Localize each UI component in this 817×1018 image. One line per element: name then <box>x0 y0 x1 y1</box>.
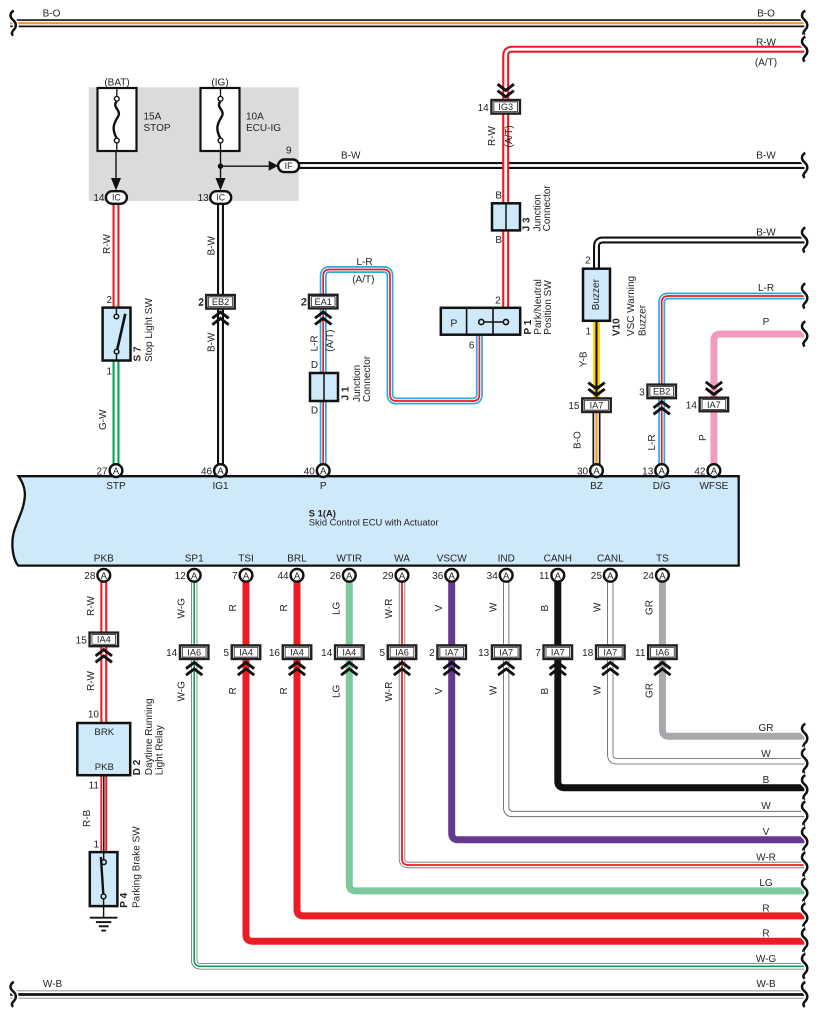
wire R-W (A/T) from right edge down to IG3 and P1 pin 2 <box>506 49 808 308</box>
wire R ECU pin TSI to right edge <box>246 582 808 941</box>
fuse F2 10A ECU-IG <box>201 88 240 151</box>
connector IC pin 14 <box>93 191 127 204</box>
wire fuse STOP to connector IC <box>115 151 117 182</box>
continuation mark B-W buzzer right <box>802 227 807 252</box>
svg-text:IA4: IA4 <box>290 648 304 658</box>
svg-text:IA6: IA6 <box>187 648 201 658</box>
svg-text:13: 13 <box>642 467 654 478</box>
ECU pin TS connector A <box>656 569 669 582</box>
svg-text:(A/T): (A/T) <box>504 125 515 147</box>
svg-text:15: 15 <box>76 635 88 646</box>
wire R-W fuse STOP to stop light switch pin 2 <box>113 204 120 308</box>
connector IA7 pin 13 (IND) <box>478 645 520 659</box>
svg-text:A: A <box>607 571 614 582</box>
svg-text:W: W <box>761 749 771 760</box>
chevron out of IA4 (BRL) <box>289 663 305 676</box>
wire B-O from IA7 to ECU pin BZ <box>593 405 601 464</box>
svg-text:L-R: L-R <box>356 257 372 268</box>
svg-text:D 2: D 2 <box>132 759 143 775</box>
svg-text:WFSE: WFSE <box>699 481 728 492</box>
chevron out of IA4 (PKB) <box>96 650 112 663</box>
chevron out of EB2 (D/G) <box>654 402 670 415</box>
svg-text:IA7: IA7 <box>499 648 513 658</box>
svg-text:D: D <box>311 360 318 371</box>
svg-text:R: R <box>279 604 290 611</box>
svg-text:J 3: J 3 <box>521 217 532 231</box>
ECU pin BRL connector A <box>291 569 304 582</box>
wire L-R from EA1 through J1 to ECU pin P <box>320 308 327 464</box>
svg-text:P 4: P 4 <box>119 892 130 907</box>
wire L-R from EA1 loop to park/neutral switch pin 6 <box>323 270 479 402</box>
svg-text:VSC Warning: VSC Warning <box>626 276 637 336</box>
svg-text:A: A <box>503 571 510 582</box>
svg-text:13: 13 <box>478 648 490 659</box>
svg-text:R: R <box>762 904 769 915</box>
svg-text:R: R <box>762 929 769 940</box>
svg-text:2: 2 <box>429 648 435 659</box>
wire G-W stop light switch pin 1 to ECU pin STP <box>113 361 120 465</box>
svg-text:GR: GR <box>645 600 656 615</box>
svg-text:B: B <box>540 605 551 612</box>
continuation mark B-O left <box>11 11 16 36</box>
svg-text:46: 46 <box>201 467 213 478</box>
svg-text:6: 6 <box>469 341 475 352</box>
wire W-B horizontal (bottom) <box>10 991 807 999</box>
svg-text:5: 5 <box>223 648 229 659</box>
svg-text:VSCW: VSCW <box>437 554 468 565</box>
continuation mark W-G right <box>802 954 807 979</box>
svg-text:GR: GR <box>645 683 656 698</box>
connector IA7 pin 14 (WFSE) <box>686 398 728 412</box>
continuation mark R BRL right <box>802 903 807 928</box>
svg-text:A: A <box>399 571 406 582</box>
svg-text:(A/T): (A/T) <box>325 329 336 351</box>
svg-text:IA7: IA7 <box>707 400 721 410</box>
continuation mark LG right <box>802 878 807 903</box>
arrowhead into IF pin 9 <box>269 161 279 171</box>
svg-text:W: W <box>488 602 499 612</box>
junction connector J1 <box>310 373 338 401</box>
svg-text:A: A <box>320 466 327 477</box>
svg-text:16: 16 <box>269 648 281 659</box>
ECU pin WTIR connector A <box>343 569 356 582</box>
svg-text:7: 7 <box>535 648 541 659</box>
svg-text:ECU-IG: ECU-IG <box>246 123 281 134</box>
svg-text:30: 30 <box>577 467 589 478</box>
svg-text:A: A <box>191 571 198 582</box>
svg-text:29: 29 <box>382 571 394 582</box>
svg-text:7: 7 <box>232 571 238 582</box>
svg-text:A: A <box>555 571 562 582</box>
svg-text:1: 1 <box>93 840 99 851</box>
svg-text:Buzzer: Buzzer <box>637 304 648 336</box>
svg-text:40: 40 <box>304 467 316 478</box>
ECU pin WFSE connector A <box>708 464 721 477</box>
svg-text:EA1: EA1 <box>315 297 332 307</box>
svg-text:G-W: G-W <box>98 409 109 430</box>
svg-text:R-W: R-W <box>102 233 113 254</box>
svg-text:Light Relay: Light Relay <box>154 725 165 775</box>
svg-text:IA6: IA6 <box>395 648 409 658</box>
svg-text:B-W: B-W <box>207 236 218 256</box>
svg-text:14: 14 <box>686 401 698 412</box>
svg-text:LG: LG <box>332 684 343 698</box>
svg-text:SP1: SP1 <box>185 554 204 565</box>
wire B-W fuse ECU-IG to EB2 to ECU pin IG1 <box>217 204 224 464</box>
continuation mark B-W right <box>802 153 807 178</box>
svg-text:TS: TS <box>656 554 669 565</box>
svg-text:11: 11 <box>89 781 100 792</box>
svg-text:28: 28 <box>84 571 96 582</box>
svg-text:14: 14 <box>166 648 178 659</box>
svg-text:LG: LG <box>759 878 773 889</box>
svg-text:V: V <box>763 827 770 838</box>
svg-text:GR: GR <box>759 723 774 734</box>
chevron out of IA4 (WTIR) <box>341 663 357 676</box>
svg-text:W: W <box>488 685 499 695</box>
svg-text:B-W: B-W <box>756 228 776 239</box>
svg-text:V: V <box>434 688 445 695</box>
svg-text:R-W: R-W <box>86 595 97 616</box>
continuation mark V right <box>802 827 807 852</box>
continuation mark W-B left <box>11 982 16 1007</box>
wire V ECU pin VSCW to right edge <box>452 582 808 840</box>
wire Y-B buzzer pin 1 to IA7 <box>593 321 600 405</box>
continuation mark B right <box>802 775 807 800</box>
ECU pin D/G connector A <box>655 464 668 477</box>
svg-text:IG1: IG1 <box>212 481 229 492</box>
svg-text:R-W: R-W <box>756 38 777 49</box>
svg-text:15: 15 <box>568 401 580 412</box>
svg-text:B: B <box>495 235 502 246</box>
svg-text:14: 14 <box>93 193 105 204</box>
connector IA7 pin 18 (CANL) <box>582 645 624 659</box>
svg-text:S 7: S 7 <box>133 346 144 361</box>
svg-text:W-B: W-B <box>43 979 63 990</box>
svg-text:A: A <box>217 466 224 477</box>
svg-text:36: 36 <box>432 571 444 582</box>
svg-text:P: P <box>450 318 457 330</box>
svg-text:IA4: IA4 <box>342 648 356 658</box>
svg-text:STP: STP <box>106 481 126 492</box>
chevron into IA7 (BZ) <box>588 383 604 396</box>
svg-text:W-G: W-G <box>176 598 187 619</box>
wire GR ECU pin TS to right edge <box>662 582 807 737</box>
svg-text:R-B: R-B <box>82 809 93 827</box>
connector IA7 pin 7 (CANH) <box>535 645 572 659</box>
svg-text:B-O: B-O <box>573 431 584 449</box>
svg-text:IA4: IA4 <box>239 648 253 658</box>
connector EA1 pin 2 <box>301 295 338 309</box>
ECU pin BZ connector A <box>590 464 603 477</box>
svg-text:42: 42 <box>694 467 706 478</box>
fuse/relay block background <box>89 87 299 201</box>
svg-text:PKB: PKB <box>95 762 114 773</box>
svg-text:IA7: IA7 <box>603 648 617 658</box>
svg-text:B: B <box>763 775 770 786</box>
chevron out of IA4 (TSI) <box>238 663 254 676</box>
wire fuse ECU-IG down to junction <box>220 151 222 182</box>
svg-text:(A/T): (A/T) <box>755 58 777 69</box>
svg-text:2: 2 <box>585 255 591 266</box>
wire B-W from right edge to buzzer pin 2 <box>597 240 808 269</box>
svg-text:B-W: B-W <box>207 332 218 352</box>
svg-text:W-B: W-B <box>756 979 776 990</box>
svg-text:P: P <box>698 434 709 441</box>
ECU pin SP1 connector A <box>188 569 201 582</box>
svg-text:BRL: BRL <box>287 554 307 565</box>
svg-text:1: 1 <box>106 367 112 378</box>
svg-text:12: 12 <box>175 571 187 582</box>
svg-text:V: V <box>434 605 445 612</box>
wire LG ECU pin WTIR to right edge <box>349 582 807 891</box>
continuation mark GR right <box>802 724 807 749</box>
svg-text:A: A <box>101 571 108 582</box>
chevron out of EA1 <box>315 312 331 325</box>
svg-text:IC: IC <box>112 193 121 203</box>
svg-text:B-W: B-W <box>756 151 776 162</box>
svg-text:IG3: IG3 <box>498 102 513 112</box>
svg-text:A: A <box>659 571 666 582</box>
svg-text:2: 2 <box>198 297 204 308</box>
junction connector J3 <box>492 203 520 230</box>
connector IG3 pin 14 <box>478 100 520 114</box>
svg-text:IC: IC <box>216 193 225 203</box>
svg-text:IND: IND <box>498 554 515 565</box>
svg-text:WTIR: WTIR <box>337 554 363 565</box>
svg-text:P: P <box>763 317 770 328</box>
svg-text:2: 2 <box>106 295 112 306</box>
parking brake switch P4 <box>90 852 118 906</box>
svg-text:D/G: D/G <box>653 481 671 492</box>
continuation mark W CANL right <box>802 749 807 774</box>
svg-text:R-W: R-W <box>487 125 498 146</box>
svg-text:WA: WA <box>394 554 410 565</box>
svg-text:10A: 10A <box>246 112 264 123</box>
svg-text:IA6: IA6 <box>656 648 670 658</box>
svg-text:11: 11 <box>635 648 646 659</box>
wire L-R from right edge down to EB2 and ECU pin D/G <box>662 296 808 464</box>
connector IA6 pin 5 (WA) <box>379 645 416 659</box>
wire B-W from IF connector to right edge <box>299 162 808 169</box>
svg-text:Y-B: Y-B <box>579 351 590 367</box>
svg-text:13: 13 <box>198 193 210 204</box>
wire W ECU pin IND to right edge <box>506 582 807 814</box>
svg-text:5: 5 <box>379 648 385 659</box>
ECU pin VSCW connector A <box>445 569 458 582</box>
svg-text:A: A <box>113 466 120 477</box>
chevron out of IA7 (VSCW) <box>444 663 460 676</box>
svg-text:B: B <box>540 688 551 695</box>
arrowhead into IC pin 13 <box>216 178 226 191</box>
svg-text:Skid Control ECU with Actuator: Skid Control ECU with Actuator <box>309 517 439 528</box>
connector EB2 pin 2 (IG1) <box>198 295 235 309</box>
svg-text:V10: V10 <box>612 318 623 336</box>
svg-text:26: 26 <box>330 571 342 582</box>
svg-text:18: 18 <box>582 648 594 659</box>
svg-text:TSI: TSI <box>238 554 254 565</box>
wire W-G ECU pin SP1 to right edge <box>194 582 807 967</box>
ECU pin CANL connector A <box>604 569 617 582</box>
continuation mark P right <box>802 321 807 346</box>
svg-text:W-R: W-R <box>756 853 776 864</box>
svg-text:EB2: EB2 <box>212 297 229 307</box>
connector IA4 pin 5 (TSI) <box>223 645 260 659</box>
wire R ECU pin BRL to right edge <box>297 582 808 916</box>
svg-text:J 1: J 1 <box>340 386 351 400</box>
connector EB2 pin 3 (D/G) <box>639 385 676 399</box>
svg-text:2: 2 <box>301 297 307 308</box>
chevron out of IA6 (SP1) <box>186 663 202 676</box>
svg-text:A: A <box>346 571 353 582</box>
svg-text:3: 3 <box>639 387 645 398</box>
svg-text:BZ: BZ <box>590 481 603 492</box>
junction dot at fuse ECU-IG branch <box>218 164 223 169</box>
ECU pin STP connector A <box>110 464 123 477</box>
svg-text:Position SW: Position SW <box>543 280 554 335</box>
connector IA7 pin 15 (BZ) <box>568 398 610 412</box>
svg-text:A: A <box>449 571 456 582</box>
connector IA6 pin 11 (TS) <box>635 645 677 659</box>
svg-text:B-O: B-O <box>43 9 61 20</box>
svg-text:Parking Brake SW: Parking Brake SW <box>132 826 143 908</box>
svg-text:A: A <box>243 571 250 582</box>
svg-text:PKB: PKB <box>94 554 114 565</box>
svg-text:A: A <box>294 571 301 582</box>
svg-text:34: 34 <box>487 571 499 582</box>
wire junction to IF connector <box>221 165 270 167</box>
svg-text:24: 24 <box>643 571 655 582</box>
arrowhead into IC pin 14 <box>111 178 121 191</box>
wire B-O main horizontal (top) <box>10 19 807 27</box>
svg-text:IA7: IA7 <box>445 648 459 658</box>
fuse F1 15A STOP <box>98 88 137 151</box>
svg-text:L-R: L-R <box>758 283 774 294</box>
svg-text:IA7: IA7 <box>551 648 565 658</box>
connector IC pin 13 <box>198 191 232 204</box>
connector IA6 pin 14 (SP1) <box>166 645 208 659</box>
ECU pin IG1 connector A <box>214 464 227 477</box>
svg-text:W: W <box>761 801 771 812</box>
wire R-B relay pin 11 to parking brake switch pin 1 <box>100 775 107 852</box>
svg-text:W: W <box>593 602 604 612</box>
wire W-R ECU pin WA to right edge <box>402 582 808 865</box>
stop light switch S7 <box>103 308 131 361</box>
chevron out of IA7 (CANL) <box>602 663 618 676</box>
svg-text:BRK: BRK <box>94 727 114 738</box>
chevron into IG3 <box>498 84 514 97</box>
svg-text:R: R <box>279 687 290 694</box>
ECU pin WA connector A <box>396 569 409 582</box>
chevron out of IA6 (WA) <box>394 663 410 676</box>
svg-text:25: 25 <box>591 571 603 582</box>
connector IA4 pin 14 (WTIR) <box>321 645 363 659</box>
svg-text:W-R: W-R <box>384 682 395 702</box>
svg-text:W-G: W-G <box>176 681 187 702</box>
svg-text:STOP: STOP <box>144 123 171 134</box>
svg-text:2: 2 <box>495 296 501 307</box>
svg-text:P: P <box>320 481 327 492</box>
continuation mark R TSI right <box>802 929 807 954</box>
svg-text:Stop Light SW: Stop Light SW <box>144 298 155 362</box>
connector IA4 pin 15 (PKB) <box>76 633 118 647</box>
ECU pin PKB connector A <box>97 569 110 582</box>
park/neutral position switch P1 <box>441 308 520 335</box>
ground symbol <box>90 906 118 931</box>
svg-text:LG: LG <box>332 601 343 615</box>
chevron out of IA7 (IND) <box>498 663 514 676</box>
chevron out of IA7 (CANH) <box>550 663 566 676</box>
chevron out of EB2 (IG1) <box>212 312 228 325</box>
svg-text:R-W: R-W <box>86 670 97 691</box>
svg-text:A: A <box>659 466 666 477</box>
svg-text:R: R <box>228 687 239 694</box>
svg-text:EB2: EB2 <box>653 387 670 397</box>
svg-text:CANL: CANL <box>597 554 624 565</box>
svg-text:11: 11 <box>539 571 550 582</box>
buzzer V10 <box>583 269 610 321</box>
svg-text:W-R: W-R <box>384 599 395 619</box>
svg-text:CANH: CANH <box>544 554 572 565</box>
chevron into IA7 (WFSE) <box>706 382 722 395</box>
continuation mark R-W right <box>802 37 807 62</box>
continuation mark W-B right <box>802 982 807 1007</box>
svg-text:15A: 15A <box>144 112 162 123</box>
svg-text:IA4: IA4 <box>97 635 111 645</box>
svg-text:W: W <box>593 685 604 695</box>
svg-text:Buzzer: Buzzer <box>591 278 602 310</box>
connector IA7 pin 2 (VSCW) <box>429 645 466 659</box>
svg-text:L-R: L-R <box>309 335 320 351</box>
svg-text:14: 14 <box>478 103 490 114</box>
svg-text:Connector: Connector <box>362 355 373 402</box>
svg-text:27: 27 <box>96 467 108 478</box>
svg-text:IA7: IA7 <box>590 401 604 411</box>
svg-text:14: 14 <box>321 648 333 659</box>
continuation mark B-O right <box>802 11 807 36</box>
wire B ECU pin CANH to right edge <box>558 582 808 788</box>
skid control ECU S1(A) box <box>12 476 738 565</box>
svg-text:D: D <box>311 406 318 417</box>
svg-text:(IG): (IG) <box>211 78 228 89</box>
svg-text:Connector: Connector <box>542 185 553 232</box>
svg-text:IF: IF <box>285 161 293 171</box>
ECU pin TSI connector A <box>240 569 253 582</box>
continuation mark L-R right <box>802 283 807 308</box>
svg-text:B-O: B-O <box>757 9 775 20</box>
connector IA4 pin 16 (BRL) <box>269 645 311 659</box>
connector IF pin 9 <box>278 160 299 173</box>
daytime running light relay D2 <box>77 723 130 775</box>
continuation mark W IND right <box>802 801 807 826</box>
svg-text:44: 44 <box>277 571 289 582</box>
svg-text:(A/T): (A/T) <box>352 274 374 285</box>
svg-text:(BAT): (BAT) <box>104 78 129 89</box>
ECU pin CANH connector A <box>551 569 564 582</box>
ECU pin IND connector A <box>500 569 513 582</box>
svg-text:W-G: W-G <box>756 954 777 965</box>
svg-text:1: 1 <box>585 327 591 338</box>
wire P from right edge down to IA7 and ECU pin WFSE <box>714 334 808 464</box>
svg-text:B: B <box>495 191 502 202</box>
wire R-W ECU pin PKB to daytime running light relay pin 10 <box>100 582 107 723</box>
svg-text:B-W: B-W <box>341 151 361 162</box>
svg-text:L-R: L-R <box>647 434 658 450</box>
continuation mark W-R right <box>802 852 807 877</box>
svg-text:10: 10 <box>88 710 100 721</box>
svg-text:A: A <box>593 466 600 477</box>
wire W ECU pin CANL to right edge <box>610 582 807 762</box>
